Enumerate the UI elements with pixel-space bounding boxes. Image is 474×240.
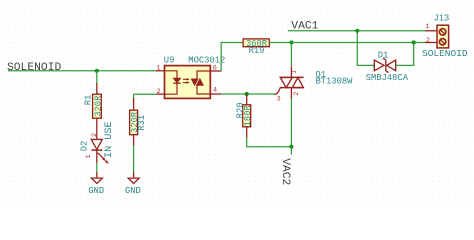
wire junction B down to Q1 bbox=[290, 43, 292, 67]
svg-text:R31: R31 bbox=[137, 115, 147, 131]
node junction B bbox=[289, 40, 293, 44]
svg-text:1: 1 bbox=[85, 154, 93, 158]
svg-text:U9: U9 bbox=[164, 55, 175, 65]
svg-text:4: 4 bbox=[213, 86, 217, 94]
wire U9 pin2 to R31 bbox=[134, 94, 156, 98]
svg-text:BT1308W: BT1308W bbox=[316, 77, 354, 87]
wire D1 right branch bbox=[396, 43, 414, 66]
svg-text:2: 2 bbox=[91, 133, 99, 137]
svg-text:1: 1 bbox=[290, 70, 298, 74]
wire Q1 down to VAC2 bbox=[290, 99, 292, 147]
svg-text:MOC3012: MOC3012 bbox=[188, 55, 225, 65]
resistor R1 bbox=[83, 83, 103, 139]
svg-text:GND: GND bbox=[125, 186, 141, 196]
svg-text:VAC2: VAC2 bbox=[279, 158, 291, 185]
ground GND1 bbox=[88, 172, 104, 196]
wire U9 pin4 to gate bbox=[221, 93, 274, 95]
svg-text:320R: 320R bbox=[93, 95, 103, 117]
node junction A bbox=[95, 69, 99, 73]
resistor R31 bbox=[130, 98, 147, 146]
svg-text:SOLENOID: SOLENOID bbox=[422, 48, 468, 59]
svg-text:2: 2 bbox=[293, 92, 301, 96]
svg-text:R19: R19 bbox=[249, 46, 265, 56]
node junction E bbox=[289, 145, 293, 149]
node junction F bbox=[412, 40, 416, 44]
resistor R20 bbox=[235, 94, 253, 138]
resistor R19 bbox=[243, 39, 269, 56]
svg-text:GND: GND bbox=[88, 186, 104, 196]
wire D2 to GND bbox=[96, 163, 98, 172]
svg-text:6: 6 bbox=[213, 65, 217, 73]
wire SOLENOID to U9 pin1 bbox=[8, 70, 156, 72]
svg-text:J13: J13 bbox=[434, 13, 450, 23]
wire VAC2 stub bbox=[290, 147, 292, 155]
svg-text:3: 3 bbox=[277, 96, 281, 104]
wire junction A down to R1 bbox=[96, 71, 98, 84]
wire R31 to GND bbox=[133, 146, 135, 173]
diode D1 SMBJ48CA bbox=[366, 50, 409, 83]
wire R19 to J13 pin2 rail bbox=[269, 42, 426, 44]
svg-text:1: 1 bbox=[425, 23, 429, 31]
wire U9 pin6 up to R19 rail bbox=[221, 43, 243, 72]
wire VAC1 rail bbox=[288, 30, 426, 32]
svg-text:2: 2 bbox=[157, 88, 161, 96]
op-coupler U9 MOC3012 bbox=[156, 55, 225, 98]
svg-text:SOLENOID: SOLENOID bbox=[7, 62, 61, 74]
connector J13 bbox=[422, 13, 468, 58]
triac Q1 bbox=[274, 66, 353, 103]
svg-text:SMBJ48CA: SMBJ48CA bbox=[366, 73, 409, 83]
wire D1 left branch bbox=[357, 31, 374, 66]
svg-text:D2: D2 bbox=[80, 141, 90, 152]
label VAC2 bbox=[279, 158, 291, 185]
label SOLENOID bbox=[7, 62, 61, 74]
svg-text:R1: R1 bbox=[83, 95, 93, 106]
wire R20 to VAC2 rail bbox=[247, 138, 292, 147]
LED D2 bbox=[80, 121, 116, 163]
ground GND2 bbox=[125, 172, 141, 196]
svg-text:180R: 180R bbox=[243, 105, 253, 127]
svg-text:IN USE: IN USE bbox=[104, 121, 115, 158]
label VAC1 bbox=[291, 20, 318, 32]
svg-text:1: 1 bbox=[157, 64, 161, 72]
svg-text:2: 2 bbox=[426, 37, 430, 45]
node junction D bbox=[245, 92, 249, 96]
node junction C bbox=[355, 29, 359, 33]
